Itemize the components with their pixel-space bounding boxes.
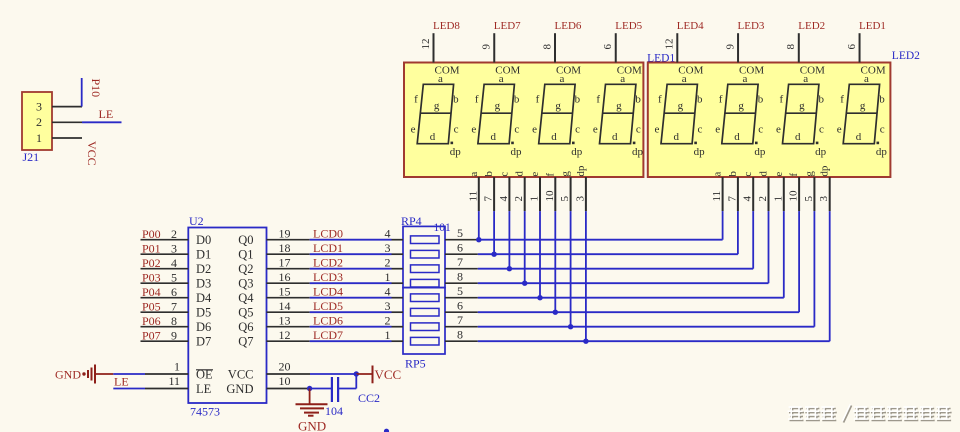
svg-text:8: 8: [457, 327, 463, 341]
net label LE (U2): [114, 375, 129, 389]
svg-text:b: b: [697, 93, 703, 105]
RP5 pin 3: [385, 299, 404, 313]
LED1 segment pin 5 (g): [559, 171, 572, 212]
LED2 digit 1 segment glyph: [654, 73, 705, 158]
wire LED1 pin dp drop: [585, 211, 587, 341]
svg-text:P06: P06: [142, 314, 161, 328]
U2 pin 3 D1 input: [141, 241, 212, 261]
net label LED1: [859, 20, 886, 32]
RP5 pin 6: [445, 298, 478, 312]
U2 pin 7 D5 input: [141, 299, 212, 319]
svg-text:d: d: [758, 171, 770, 177]
designator CC2: [358, 391, 380, 405]
net label LCD6: [313, 314, 343, 328]
designator RP4: [401, 214, 422, 228]
svg-text:LED5: LED5: [615, 20, 642, 32]
svg-text:g: g: [799, 100, 805, 112]
wire segment net g horizontal: [478, 326, 815, 328]
net label P05: [142, 299, 161, 313]
svg-text:e: e: [773, 172, 785, 177]
svg-text:Q3: Q3: [238, 277, 253, 291]
svg-text:U2: U2: [189, 214, 204, 228]
junction VCC node: [354, 371, 359, 376]
wire LED1 pin c drop: [508, 211, 510, 269]
wire net LCD7: [310, 340, 392, 342]
svg-text:c: c: [880, 123, 885, 135]
U2 pin 14 Q5 output: [238, 299, 309, 320]
svg-text:b: b: [727, 171, 739, 177]
svg-text:12: 12: [279, 328, 291, 342]
svg-text:1: 1: [174, 360, 180, 374]
net label P00: [142, 227, 161, 241]
svg-text:LE: LE: [114, 375, 129, 389]
svg-text:f: f: [544, 173, 556, 177]
LED2 COM pin 6 (digit 4): [846, 33, 886, 76]
wire LED2 pin b drop: [737, 211, 739, 254]
svg-text:D2: D2: [196, 262, 211, 276]
svg-text:d: d: [856, 131, 862, 143]
svg-text:a: a: [803, 73, 808, 85]
RP4 pin 6: [445, 240, 478, 254]
RP4 pin 1: [385, 270, 404, 284]
net label P01: [142, 241, 161, 255]
junction segment f: [553, 310, 558, 315]
LED1 COM pin 9 (digit 2): [481, 33, 521, 76]
J21 pin 1: [36, 131, 82, 145]
svg-text:g: g: [495, 100, 501, 112]
svg-text:LED2: LED2: [798, 20, 825, 32]
svg-text:2: 2: [385, 314, 391, 328]
net label LCD4: [313, 285, 343, 299]
svg-text:3: 3: [574, 196, 586, 202]
svg-text:dp: dp: [632, 146, 644, 158]
wire GND to capacitor: [310, 388, 332, 390]
svg-text:c: c: [819, 123, 824, 135]
junction segment a: [476, 237, 481, 242]
designator LED1: [647, 52, 675, 64]
designator U2: [189, 214, 204, 228]
svg-text:D6: D6: [196, 320, 211, 334]
svg-text:19: 19: [279, 227, 291, 241]
RP4 pin 3: [385, 241, 404, 255]
svg-text:7: 7: [483, 196, 495, 202]
svg-text:10: 10: [544, 190, 556, 202]
svg-text:a: a: [712, 172, 724, 177]
7-segment display module LED2: [648, 63, 891, 178]
wire segment net e horizontal: [478, 297, 784, 299]
net label P07: [142, 328, 161, 342]
svg-text:11: 11: [711, 191, 723, 202]
wire LED1 pin e drop: [539, 211, 541, 298]
svg-text:dp: dp: [876, 146, 888, 158]
svg-text:LCD7: LCD7: [313, 328, 343, 342]
value 74573: [190, 405, 220, 419]
svg-text:Q2: Q2: [238, 262, 253, 276]
LED2 segment pin 5 (g): [803, 171, 816, 212]
RP5 pin 8: [445, 327, 478, 341]
svg-text:14: 14: [279, 299, 291, 313]
svg-text:7: 7: [171, 299, 177, 313]
svg-text:e: e: [529, 172, 541, 177]
svg-text:1: 1: [385, 328, 391, 342]
svg-text:b: b: [758, 93, 764, 105]
RP4 pin 5: [445, 226, 478, 240]
svg-text:d: d: [551, 131, 557, 143]
svg-text:VCC: VCC: [375, 367, 402, 382]
U2 pin 17 Q2 output: [238, 256, 309, 277]
svg-text:dp: dp: [511, 146, 523, 158]
LED1 COM pin 12 (digit 1): [420, 33, 460, 76]
junction segment g: [568, 324, 573, 329]
svg-text:d: d: [795, 131, 801, 143]
net label LE: [99, 107, 114, 121]
svg-text:3: 3: [36, 99, 42, 113]
svg-text:LCD4: LCD4: [313, 285, 343, 299]
U2 pin 13 Q6 output: [238, 314, 309, 335]
wire segment net dp horizontal: [478, 340, 830, 342]
junction segment d: [522, 281, 527, 286]
svg-text:104: 104: [325, 404, 343, 418]
LED2 segment pin 3 (dp): [818, 165, 831, 211]
U2 pin 11 LE: [145, 374, 212, 396]
svg-text:f: f: [414, 93, 418, 105]
wire capacitor to VCC node: [338, 374, 356, 389]
svg-text:g: g: [560, 171, 572, 177]
svg-text:LED3: LED3: [738, 20, 765, 32]
junction segment b: [491, 252, 496, 257]
7-segment display module LED1: [404, 63, 643, 178]
svg-text:LCD0: LCD0: [313, 227, 343, 241]
svg-text:16: 16: [279, 270, 291, 284]
svg-text:f: f: [719, 93, 723, 105]
U2 pin 6 D4 input: [141, 285, 213, 305]
svg-text:g: g: [678, 100, 684, 112]
RP4 pin 2: [385, 256, 404, 270]
svg-text:d: d: [674, 131, 680, 143]
svg-text:Q5: Q5: [238, 306, 253, 320]
svg-text:b: b: [514, 93, 520, 105]
svg-text:7: 7: [457, 255, 463, 269]
RP4 pin 8: [445, 269, 478, 283]
svg-text:a: a: [468, 172, 480, 177]
svg-text:11: 11: [168, 374, 180, 388]
resistor RP5 element 3: [411, 323, 440, 331]
svg-text:4: 4: [742, 196, 754, 202]
wire segment net c horizontal: [478, 268, 753, 270]
svg-text:d: d: [514, 171, 526, 177]
svg-text:9: 9: [481, 44, 493, 50]
svg-text:2: 2: [385, 256, 391, 270]
svg-text:P02: P02: [142, 256, 161, 270]
svg-text:P10: P10: [89, 79, 103, 98]
svg-text:6: 6: [846, 44, 858, 50]
junction segment e: [537, 295, 542, 300]
svg-text:dp: dp: [450, 146, 462, 158]
resistor RP4 element 2: [411, 250, 440, 258]
watermark: [788, 404, 952, 422]
svg-text:17: 17: [279, 256, 291, 270]
net label LED7: [494, 20, 521, 32]
svg-text:13: 13: [279, 314, 291, 328]
LED2 COM pin 12 (digit 1): [664, 33, 704, 76]
connector J21: [22, 92, 52, 150]
svg-text:a: a: [682, 73, 687, 85]
LED2 segment pin 4 (c): [742, 172, 755, 212]
svg-text:10: 10: [279, 374, 291, 388]
LED1 segment pin 11 (a): [467, 172, 480, 212]
wire LED2 pin e drop: [783, 211, 785, 298]
svg-text:VCC: VCC: [85, 141, 99, 166]
value 104: [325, 404, 343, 418]
wire LED1 pin f drop: [554, 211, 556, 312]
svg-text:6: 6: [457, 240, 463, 254]
svg-text:3: 3: [385, 299, 391, 313]
svg-text:12: 12: [420, 39, 432, 50]
U2 pin 10 GND: [226, 374, 309, 396]
svg-text:7: 7: [457, 313, 463, 327]
svg-text:a: a: [864, 73, 869, 85]
svg-text:20: 20: [279, 360, 291, 374]
net label P04: [142, 285, 161, 299]
svg-text:5: 5: [457, 226, 463, 240]
resistor RP5 element 1: [411, 294, 440, 302]
svg-text:a: a: [620, 73, 625, 85]
svg-text:c: c: [498, 172, 510, 177]
svg-text:dp: dp: [571, 146, 583, 158]
svg-text:dp: dp: [815, 146, 827, 158]
svg-text:3: 3: [171, 241, 177, 255]
svg-text:LCD1: LCD1: [313, 241, 343, 255]
junction segment dp: [583, 339, 588, 344]
svg-text:e: e: [532, 123, 537, 135]
svg-text:5: 5: [559, 196, 571, 202]
svg-text:f: f: [536, 93, 540, 105]
svg-text:P00: P00: [142, 227, 161, 241]
svg-text:Q6: Q6: [238, 320, 253, 334]
svg-text:5: 5: [803, 196, 815, 202]
svg-text:GND: GND: [55, 368, 81, 382]
svg-text:d: d: [612, 131, 618, 143]
LED1 segment pin 2 (d): [513, 171, 526, 212]
earth ground symbol (CC2/GND): [296, 389, 328, 416]
svg-text:6: 6: [171, 285, 177, 299]
designator RP5: [405, 357, 426, 371]
net label GND: [55, 368, 81, 382]
net label P06: [142, 314, 161, 328]
U2 pin 1 OE: [145, 360, 213, 382]
U2 pin 2 D0 input: [141, 227, 212, 247]
power port VCC (U2): [356, 366, 401, 384]
wire LED1 pin a drop: [478, 211, 480, 240]
svg-text:LCD6: LCD6: [313, 314, 343, 328]
svg-text:b: b: [879, 93, 885, 105]
svg-text:8: 8: [457, 269, 463, 283]
value 101: [434, 222, 452, 234]
svg-text:4: 4: [171, 256, 177, 270]
svg-text:Q4: Q4: [238, 291, 254, 305]
svg-text:3: 3: [818, 196, 830, 202]
svg-text:D5: D5: [196, 306, 211, 320]
wire net LCD2: [310, 268, 392, 270]
svg-text:8: 8: [785, 44, 797, 50]
net label LCD0: [313, 227, 343, 241]
svg-text:c: c: [758, 123, 763, 135]
svg-text:f: f: [658, 93, 662, 105]
svg-text:e: e: [411, 123, 416, 135]
svg-text:Q1: Q1: [238, 248, 253, 262]
svg-text:8: 8: [541, 44, 553, 50]
svg-text:d: d: [734, 131, 740, 143]
svg-text:d: d: [491, 131, 497, 143]
svg-text:D1: D1: [196, 248, 211, 262]
resistor pack RP5 body: [403, 288, 445, 354]
LED1 COM pin 8 (digit 3): [541, 33, 581, 76]
svg-text:e: e: [654, 123, 659, 135]
U2 pin 12 Q7 output: [238, 328, 309, 349]
svg-text:LED7: LED7: [494, 20, 521, 32]
svg-text:g: g: [616, 100, 622, 112]
wire LED2 pin d drop: [768, 211, 770, 283]
svg-text:18: 18: [279, 241, 291, 255]
RP5 pin 1: [385, 328, 404, 342]
U2 pin 15 Q4 output: [238, 285, 309, 306]
svg-text:5: 5: [171, 270, 177, 284]
junction GND node: [307, 386, 312, 391]
svg-text:P04: P04: [142, 285, 161, 299]
svg-text:VCC: VCC: [228, 367, 254, 381]
LED1 segment pin 1 (e): [529, 172, 542, 212]
svg-text:2: 2: [513, 196, 525, 202]
wire net LCD4: [310, 297, 392, 299]
svg-text:dp: dp: [694, 146, 706, 158]
net label LCD7: [313, 328, 343, 342]
svg-text:f: f: [596, 93, 600, 105]
svg-text:11: 11: [467, 191, 479, 202]
wire LED1 pin g drop: [570, 211, 572, 327]
svg-text:RP5: RP5: [405, 357, 426, 371]
svg-text:dp: dp: [575, 165, 587, 177]
net label P03: [142, 270, 161, 284]
designator J21: [23, 150, 40, 164]
RP5 pin 4: [385, 285, 404, 299]
LED2 segment pin 1 (e): [772, 172, 785, 212]
svg-text:CC2: CC2: [358, 391, 380, 405]
wire net LCD0: [310, 239, 392, 241]
LED1 segment pin 10 (f): [544, 173, 557, 212]
svg-text:LED2: LED2: [892, 50, 920, 62]
LED2 COM pin 8 (digit 3): [785, 33, 825, 76]
svg-text:c: c: [742, 172, 754, 177]
LED2 COM pin 9 (digit 2): [724, 33, 764, 76]
svg-text:f: f: [779, 93, 783, 105]
LED2 digit 2 segment glyph: [715, 73, 766, 158]
net label LCD2: [313, 256, 343, 270]
LED1 segment pin 3 (dp): [574, 165, 587, 211]
svg-text:2: 2: [757, 196, 769, 202]
svg-text:b: b: [453, 93, 459, 105]
svg-text:9: 9: [724, 44, 736, 50]
svg-text:GND: GND: [226, 382, 253, 396]
svg-text:P05: P05: [142, 299, 161, 313]
wire LED2 pin f drop: [798, 211, 800, 312]
wire LED2 pin c drop: [752, 211, 754, 269]
svg-text:2: 2: [171, 227, 177, 241]
svg-text:15: 15: [279, 285, 291, 299]
svg-text:b: b: [635, 93, 641, 105]
wire net P10: [81, 78, 83, 107]
svg-text:b: b: [483, 171, 495, 177]
net label P02: [142, 256, 161, 270]
svg-text:1: 1: [772, 196, 784, 202]
svg-text:4: 4: [498, 195, 510, 201]
U2 pin 20 VCC: [228, 360, 310, 382]
svg-text:RP4: RP4: [401, 214, 422, 228]
latch U2 74573 body: [188, 228, 266, 404]
svg-text:a: a: [499, 73, 504, 85]
LED2 digit 3 segment glyph: [776, 73, 827, 158]
svg-text:5: 5: [457, 284, 463, 298]
U2 pin 16 Q3 output: [238, 270, 309, 291]
LED1 segment pin 7 (b): [483, 171, 496, 212]
svg-text:1: 1: [36, 131, 42, 145]
U2 pin 5 D3 input: [141, 270, 212, 290]
net label LED8: [433, 20, 460, 32]
svg-text:1: 1: [385, 270, 391, 284]
wire segment net b horizontal: [478, 253, 738, 255]
RP5 pin 2: [385, 314, 404, 328]
net label LCD3: [313, 270, 343, 284]
U2 pin 18 Q1 output: [238, 241, 309, 262]
wire segment net d horizontal: [478, 282, 769, 284]
resistor RP5 element 2: [411, 308, 440, 316]
junction (bottom edge): [384, 429, 389, 432]
svg-text:c: c: [636, 123, 641, 135]
svg-text:c: c: [454, 123, 459, 135]
svg-text:g: g: [803, 171, 815, 177]
U2 pin 4 D2 input: [141, 256, 212, 276]
svg-text:J21: J21: [23, 150, 40, 164]
wire net LCD1: [310, 253, 392, 255]
svg-text:b: b: [818, 93, 824, 105]
net label LED2: [798, 20, 825, 32]
svg-text:2: 2: [36, 115, 42, 129]
wire net LCD6: [310, 326, 392, 328]
svg-text:1: 1: [529, 196, 541, 202]
svg-text:c: c: [697, 123, 702, 135]
wire net LCD5: [310, 311, 392, 313]
svg-text:6: 6: [457, 298, 463, 312]
svg-text:f: f: [475, 93, 479, 105]
svg-text:Q7: Q7: [238, 335, 253, 349]
svg-text:4: 4: [385, 285, 391, 299]
svg-text:e: e: [715, 123, 720, 135]
wire net LE (U2): [113, 388, 145, 390]
power port VCC (J21 pin 1): [85, 141, 99, 166]
svg-text:e: e: [837, 123, 842, 135]
svg-text:LED4: LED4: [677, 20, 704, 32]
svg-text:P01: P01: [142, 241, 161, 255]
RP4 pin 7: [445, 255, 478, 269]
svg-text:P07: P07: [142, 328, 161, 342]
svg-text:d: d: [430, 131, 436, 143]
svg-text:LE: LE: [99, 107, 114, 121]
U2 pin 9 D7 input: [141, 328, 212, 348]
svg-text:e: e: [471, 123, 476, 135]
svg-text:a: a: [560, 73, 565, 85]
svg-text:a: a: [438, 73, 443, 85]
designator LED2: [892, 50, 920, 62]
net label GND (bottom): [298, 419, 326, 432]
